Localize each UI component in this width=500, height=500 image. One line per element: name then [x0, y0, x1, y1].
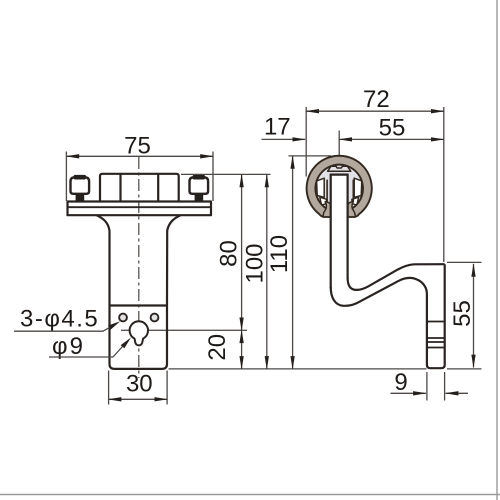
stem with flare fillets [97, 215, 181, 305]
dim 55 right line [473, 264, 475, 368]
dim 55 top line [339, 138, 444, 140]
ring hook left [323, 202, 331, 217]
page border right [496, 0, 498, 500]
S-arm lower edge [331, 278, 427, 306]
dim 80 line [241, 174, 243, 330]
svg-text:110: 110 [266, 235, 293, 273]
centerline vertical left view [138, 157, 140, 378]
bolt right cap [193, 175, 205, 180]
dim 110 line [292, 156, 294, 369]
hole right [151, 314, 159, 322]
ext 55 right bottom [447, 368, 482, 370]
dim 30 line [109, 398, 168, 400]
saddle collar line right [352, 180, 354, 203]
leader 3-phi4.5 [14, 324, 116, 331]
ext line top 110 [289, 155, 332, 157]
svg-text:9: 9 [394, 369, 407, 396]
bolt left stub [76, 194, 85, 202]
svg-text:3-φ4.5: 3-φ4.5 [20, 306, 99, 333]
ext line top 80/100 [181, 173, 271, 175]
flange plate [68, 202, 212, 216]
svg-text:55: 55 [379, 115, 406, 142]
dim 9 ext lines [427, 372, 445, 401]
inner ring area [315, 165, 363, 213]
leader phi9 [49, 342, 127, 358]
stem top edge [330, 174, 349, 176]
S-arm upper edge [348, 264, 445, 290]
centerline horizontal keyhole [121, 329, 247, 331]
dim 17 line [262, 138, 306, 140]
wall plate [427, 264, 445, 368]
dim 20 line [241, 330, 243, 369]
dim 30 ext lines [109, 371, 168, 405]
hole left [119, 314, 127, 322]
svg-text:20: 20 [204, 334, 231, 361]
wall plate lines [427, 322, 445, 348]
tan C-ring [307, 156, 372, 217]
ext 72 left [305, 107, 307, 177]
dim 75 extension lines [66, 152, 213, 202]
svg-text:17: 17 [264, 114, 291, 141]
svg-text:100: 100 [241, 243, 268, 283]
stem left edge [330, 174, 332, 288]
page border bottom [0, 494, 500, 496]
dim 9 right arrow [446, 392, 468, 394]
saddle top tab [328, 166, 351, 171]
svg-text:75: 75 [124, 132, 151, 159]
ext 72 right [443, 107, 445, 262]
bottom plate [110, 306, 168, 369]
svg-text:72: 72 [363, 86, 390, 113]
flange mid line [68, 206, 212, 208]
bolt right stub [195, 194, 204, 202]
saddle notch right [354, 178, 362, 197]
dim 9 left arrow [391, 392, 426, 394]
keyhole [130, 321, 148, 345]
svg-text:80: 80 [215, 240, 242, 267]
ext 55 right top [447, 261, 482, 263]
bolt left cap [74, 175, 86, 180]
svg-text:φ9: φ9 [52, 333, 85, 360]
saddle wedge left [320, 197, 327, 205]
saddle collar line left [326, 180, 328, 203]
bolt left head [71, 177, 90, 194]
ring hook right [348, 202, 356, 217]
dim 100 line [266, 174, 268, 369]
raised top profile [100, 174, 179, 202]
svg-text:30: 30 [126, 371, 153, 398]
saddle wedge right [352, 197, 359, 205]
svg-text:55: 55 [449, 300, 476, 327]
dim 72 line [306, 110, 444, 112]
raised profile inner verticals [121, 174, 159, 202]
saddle notch left [317, 178, 325, 197]
plate top line [110, 304, 168, 306]
stem of side view white fill [332, 175, 347, 289]
stem right edge [347, 174, 349, 279]
center tick above ring [338, 131, 340, 156]
bolt right head [190, 177, 209, 194]
dim 75 line [66, 155, 213, 157]
ext line bottom shared [169, 368, 427, 370]
